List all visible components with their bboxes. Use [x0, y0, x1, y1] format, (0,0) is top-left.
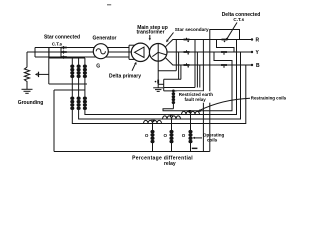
generator sine symbol — [96, 49, 105, 54]
coil CT secondary winding 1 — [70, 65, 74, 78]
svg-text:G: G — [96, 63, 100, 69]
symbol star winding — [152, 52, 166, 56]
coil CT secondary winding 2 — [77, 65, 81, 78]
symbol delta winding — [135, 47, 145, 57]
svg-text:Star secondary: Star secondary — [175, 27, 209, 32]
node terminal B — [251, 64, 253, 66]
svg-text:C.T.s: C.T.s — [52, 41, 63, 46]
wire neutral CT secondary bottom lead — [158, 83, 164, 85]
svg-text:R: R — [256, 37, 260, 43]
wire transformer input tie — [129, 45, 137, 59]
wire Y phase output — [167, 51, 252, 53]
wire neutral down lead — [26, 52, 28, 67]
operating coil O2 — [169, 130, 173, 143]
arrow main transformer pointer — [149, 35, 151, 41]
CT delta-connected CT on Y phase — [221, 52, 227, 55]
coil interposing winding 3 — [83, 97, 87, 110]
node generator star point tie — [35, 48, 49, 58]
wire pilot lower to left restraining line — [72, 65, 246, 124]
svg-text:O: O — [182, 133, 186, 138]
wire REF CT drop B left — [180, 65, 182, 79]
CT star-connected CT on B phase — [62, 56, 67, 59]
wire REF collection right bus — [164, 87, 195, 89]
label star connected CTs — [44, 34, 80, 46]
label percentage differential relay — [132, 155, 193, 167]
coil interposing winding 2 — [77, 97, 81, 110]
wire R phase output — [166, 40, 252, 47]
label operating coils — [203, 132, 225, 142]
CT star-secondary side CT on B phase — [184, 63, 190, 67]
svg-text:coils: coils — [207, 137, 218, 142]
wire REF CT drop R right — [194, 40, 196, 88]
node terminal Y — [251, 51, 253, 53]
CT star-secondary side CT on Y phase — [184, 50, 190, 54]
wire CT secondary winding lead 2 — [78, 58, 80, 97]
label main step up transformer — [136, 25, 167, 36]
svg-text:O: O — [164, 133, 168, 138]
CT star-connected CT on R phase — [62, 46, 67, 49]
wire delta CT corner link — [210, 30, 240, 152]
svg-text:Percentage differential: Percentage differential — [132, 155, 193, 161]
wire CT secondary box top bus — [49, 57, 85, 59]
contact relay trip bar — [192, 148, 198, 150]
ground CT star point earth arrow — [35, 72, 49, 77]
wire REF relay return — [163, 65, 232, 111]
wire delta CT step 2 — [214, 52, 232, 65]
wire pilot return bottom bus — [54, 151, 210, 153]
svg-text:Restraining coils: Restraining coils — [251, 96, 287, 101]
CT neutral earthing CT — [155, 80, 159, 84]
wire star neutral vertical — [157, 44, 159, 88]
wire REF collection top edge — [164, 78, 181, 80]
svg-text:relay: relay — [164, 161, 176, 167]
wire phase B bus (generator side) — [35, 56, 129, 58]
coil restricted earth fault relay — [172, 90, 176, 109]
CT delta-connected CT on B phase — [221, 65, 227, 68]
node terminal R — [251, 38, 253, 40]
CT star-secondary side CT on R phase — [184, 38, 190, 42]
wire CT secondary box bottom bus — [49, 83, 87, 85]
wire operating coil tap 2 — [171, 119, 173, 152]
transformer delta primary circle — [131, 43, 149, 61]
generator G circle — [93, 44, 108, 59]
wire REF CT drop Y right — [196, 52, 198, 88]
wire CT secondary winding lead 3 — [84, 58, 86, 97]
wire REF collection left edge — [163, 79, 165, 91]
arrow restraining coils pointer — [197, 98, 250, 112]
svg-text:fault relay: fault relay — [185, 97, 207, 102]
wire CT secondary winding lead 1 — [71, 58, 73, 97]
wire neutral CT secondary top lead — [158, 70, 176, 72]
wire phase Y bus / neutral lead — [27, 51, 132, 53]
arrow delta primary pointer — [132, 62, 137, 71]
CT delta-connected CT on R phase — [222, 40, 228, 43]
wire CT secondary lead drop — [60, 48, 62, 59]
svg-text:Delta primary: Delta primary — [109, 74, 141, 80]
svg-text:Grounding: Grounding — [18, 100, 44, 106]
arrow star secondary pointer — [166, 33, 173, 43]
svg-text:C.T.s: C.T.s — [233, 17, 244, 22]
wire delta CT step 1 — [217, 40, 235, 53]
transformer star secondary circle — [149, 44, 167, 62]
wire operating coil tap 3 — [190, 115, 192, 152]
wire B phase output — [166, 58, 252, 65]
svg-text:transformer: transformer — [136, 30, 164, 36]
label restricted earth fault relay — [177, 91, 218, 103]
wire REF collection bus — [164, 90, 204, 92]
arrow operating coils pointer — [192, 137, 202, 139]
svg-text:O: O — [145, 133, 149, 138]
ground transformer neutral earth — [153, 88, 163, 92]
coil CT secondary winding 3 — [83, 65, 87, 78]
restraining coil R2 — [163, 116, 181, 119]
wire CT secondary box left edge — [48, 48, 50, 85]
wire operating coil tap 1 — [152, 124, 154, 152]
wire pilot middle to middle restraining line — [79, 52, 241, 119]
wire REF CT drop B right — [199, 65, 201, 88]
wire phase R bus (generator side) — [35, 47, 129, 49]
svg-text:Star connected: Star connected — [44, 34, 80, 40]
operating coil O3 — [188, 130, 192, 143]
ground generator neutral earth — [22, 89, 33, 93]
wire REF CT drop Y left — [178, 52, 180, 79]
wire pilot upper to right restraining line — [85, 40, 237, 115]
svg-text:B: B — [256, 63, 260, 69]
label delta connected CTs — [222, 12, 261, 22]
restraining coil R3 — [182, 111, 200, 114]
wire interposing box top bus — [54, 89, 85, 91]
resistor grounding resistor — [24, 67, 29, 89]
CT star-connected CT on Y phase — [62, 51, 67, 54]
operating coil O1 — [150, 130, 154, 143]
restraining coil R1 — [144, 120, 162, 123]
wire pilot return left edge — [53, 90, 55, 152]
wire delta CT common drop — [202, 40, 204, 152]
svg-text:Generator: Generator — [93, 36, 117, 42]
artifact tiny dash — [107, 4, 111, 6]
coil interposing winding 1 — [70, 97, 74, 110]
arrow delta CT pointer — [226, 23, 237, 41]
wire REF CT drop R left — [175, 40, 177, 71]
